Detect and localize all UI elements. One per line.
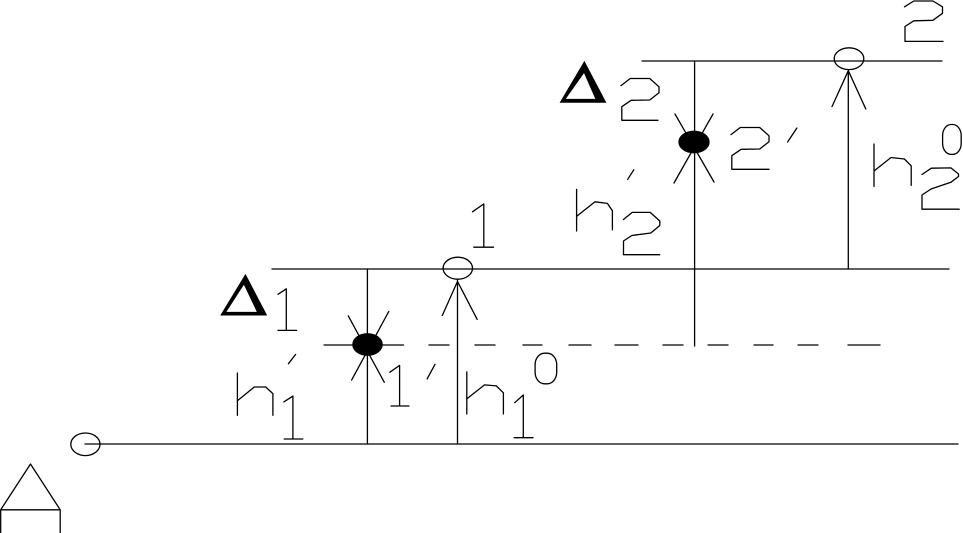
label 1' (beside point 1'): [390, 364, 435, 406]
label h2' (left of 2' line): [577, 170, 660, 255]
label 1 (above circle 1): [473, 204, 494, 247]
station circle 1: [443, 257, 472, 279]
staff arrow under circle 2: [832, 70, 866, 269]
datum circle (left end of bottom line): [71, 433, 100, 456]
vertical line through point 1': [366, 269, 368, 444]
label delta 1: [220, 274, 296, 331]
filled point 2': [679, 131, 709, 152]
staff arrow under circle 1: [442, 279, 477, 444]
station circle 2: [834, 48, 864, 70]
filled point 1': [353, 334, 382, 355]
dashed line (level of points 1' / 2'): [324, 344, 880, 346]
label 2 (top right): [905, 1, 944, 41]
benchmark symbol (triangle on post, bottom left): [1, 464, 61, 533]
bottom datum line: [85, 443, 958, 445]
middle line (level of point 1): [272, 268, 949, 270]
vertical line through point 2': [694, 61, 696, 346]
cross at point 1': [348, 311, 389, 382]
cross at point 2': [674, 114, 714, 183]
label h1^0 (right of arrow 1): [467, 353, 557, 438]
label 2' (beside point 2'): [731, 128, 797, 170]
label h1' (left of 1' line): [237, 354, 302, 439]
label delta 2: [560, 61, 659, 120]
label h2^0 (right of arrow 2): [874, 125, 961, 210]
top line (level of point 2): [642, 60, 942, 62]
